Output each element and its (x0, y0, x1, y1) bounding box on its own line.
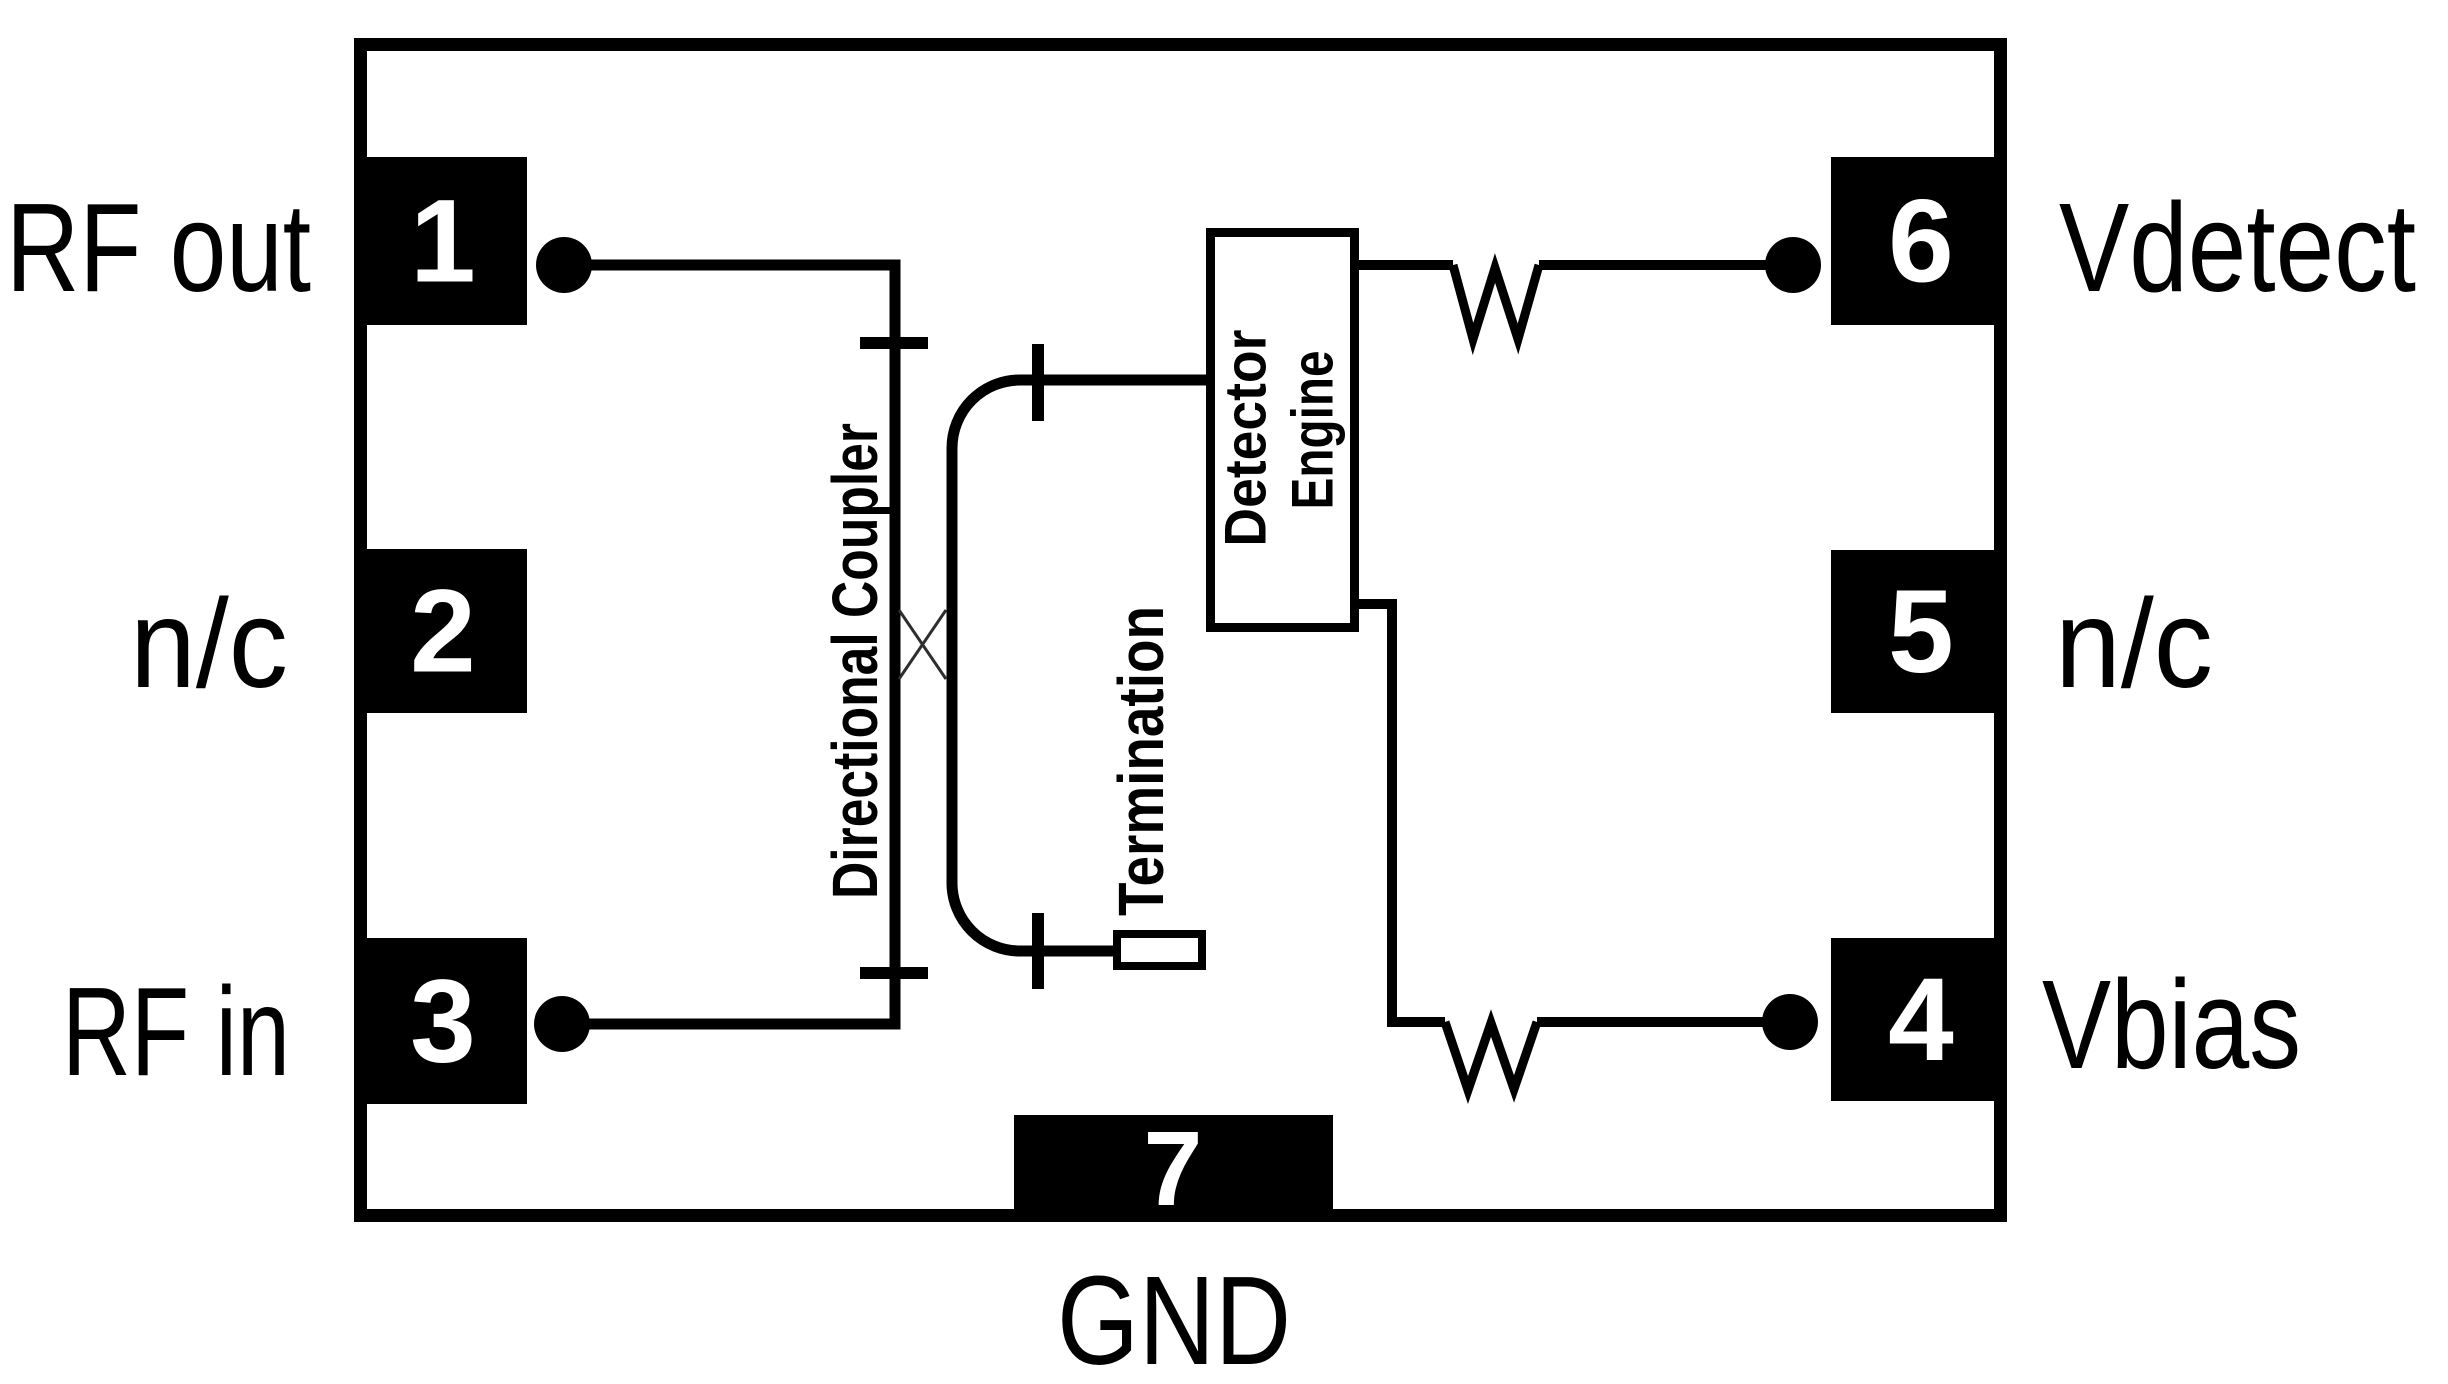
svg-text:RF in: RF in (62, 961, 290, 1102)
svg-text:Vbias: Vbias (2042, 954, 2301, 1095)
svg-text:Termination: Termination (1105, 606, 1177, 916)
svg-text:6: 6 (1888, 176, 1954, 308)
svg-text:7: 7 (1144, 1110, 1203, 1228)
svg-text:RF out: RF out (6, 177, 311, 318)
svg-text:4: 4 (1888, 954, 1954, 1086)
svg-text:3: 3 (410, 956, 476, 1088)
svg-text:GND: GND (1057, 1250, 1291, 1384)
svg-text:n/c: n/c (2055, 573, 2213, 714)
svg-text:2: 2 (410, 566, 476, 698)
svg-text:n/c: n/c (130, 573, 288, 714)
svg-text:Vdetect: Vdetect (2059, 177, 2416, 318)
svg-text:Directional Coupler: Directional Coupler (819, 423, 891, 899)
svg-text:5: 5 (1888, 566, 1954, 698)
svg-text:1: 1 (410, 176, 476, 308)
